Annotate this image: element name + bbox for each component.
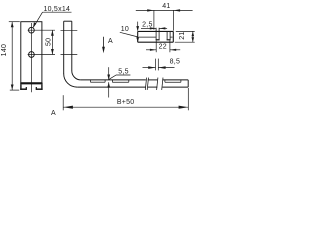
arm bottom line [77,86,146,88]
section lip right pair [166,32,168,40]
arrowhead 50 bottom [51,49,54,54]
label 10,5x14 underline [43,11,72,13]
svg-text:10: 10 [121,26,129,33]
dim B+50 line [63,106,188,108]
dim 41 line [136,9,193,11]
dim 5,5 leader [109,75,131,79]
dim 41 extension right [172,10,174,30]
break mark 2a [157,78,158,90]
foot left wall [20,84,22,90]
foot right wall [41,84,43,90]
foot channel top bar [20,83,42,85]
hole2 centerline tick side view [61,54,78,56]
arrowhead 22 right outside [170,49,176,51]
svg-text:50: 50 [46,38,53,46]
front view upright plate outline [21,22,42,83]
arrowhead B+50 right [179,106,189,109]
section bottom [138,41,174,43]
label 10 leader [120,32,138,37]
arrowhead leader 10,5x14 [33,22,36,28]
vertical centerline through holes [30,23,32,92]
dim 2,5 / 41 vertical line with down arrow [137,22,139,31]
section left wall [137,31,139,42]
side view leg left edge [63,21,65,74]
arrowhead 140 bottom [11,85,14,90]
dim 8,5 tail right [158,67,174,69]
svg-text:10,5x14: 10,5x14 [43,6,70,13]
arrowhead 2,5 down at flange [136,26,139,31]
foot right lip [36,88,43,90]
dim 2,5 horizontal counter line right [159,27,167,29]
arrowhead 2,5 pointing left [159,27,165,29]
dim 140 line [11,22,13,90]
dim 5,5 upper line [108,67,110,80]
arrowhead 21 bottom [192,37,195,42]
dim 21 line [192,31,194,42]
dim 140 extension top [9,21,20,23]
view arrow A line [103,37,105,47]
arrowhead 41 left outside [147,9,154,11]
dim 22 extension right [169,41,171,53]
dim 41 extension left [153,10,155,29]
svg-text:2,5: 2,5 [142,21,152,28]
hole1 centerline tick side view [61,29,78,31]
arm slot 4 [165,81,181,83]
arm slot 2 [112,81,128,83]
dim 22 tail left [146,49,156,51]
dim 8,5 tail left [143,67,156,69]
section right wall [172,31,174,42]
svg-text:A: A [108,38,113,45]
side view leg right edge [71,21,73,71]
arrowhead 22 left outside [150,49,156,51]
arrowhead 10 up at shelf [136,37,139,42]
label 10,5x14 leader [33,12,42,27]
dim 140 extension bottom [10,89,19,91]
foot left lip [20,88,27,90]
arrowhead 8,5 right outside [158,66,165,69]
break mark 2b [162,78,163,90]
svg-text:21: 21 [179,31,186,39]
arrowhead 50 top [51,30,54,35]
svg-text:140: 140 [1,44,8,56]
arrowhead 8,5 left outside [148,66,155,69]
svg-text:22: 22 [159,43,167,50]
section top flange [138,30,174,32]
arrowhead 5,5 down [107,75,110,80]
svg-text:A: A [51,110,56,117]
side view leg top cap [64,20,72,22]
dim 21 extension top [176,30,195,32]
section lip left pair [155,28,157,40]
svg-text:8,5: 8,5 [170,58,180,65]
arrowhead 140 top [11,22,14,27]
svg-text:5,5: 5,5 [118,68,128,75]
dim 8,5 extension left [155,59,157,71]
arrowhead 5,5 up [107,82,110,87]
arrowhead B+50 left [63,106,73,109]
dim 50 line [51,30,53,54]
svg-text:B+50: B+50 [117,99,135,106]
dim 2,5 horizontal arrow line left [141,27,156,29]
slot hole 2 [29,52,35,58]
hole1 centerline tick left view [28,29,55,31]
outer bend curve [64,74,77,87]
arm end cap [187,80,189,87]
break mark 1a [145,78,146,90]
hole2 centerline tick left view [28,54,55,56]
dim 22 extension left [155,41,157,53]
dim 21 extension bottom [175,41,195,43]
arrowhead 41 right outside [173,9,180,11]
inner bend curve [72,71,81,80]
dim 22 tail right [170,49,180,51]
svg-text:41: 41 [162,3,170,10]
arm top line [81,79,146,81]
section inner shelf line left [139,36,156,38]
dim B+50 extension left [62,95,64,110]
section inner shelf line right [170,36,172,38]
arrowhead 21 top [192,32,195,37]
dim 8,5 extension right [157,59,159,71]
arrowhead A down [102,47,105,53]
break mark 1b [147,78,148,90]
dim B+50 extension right [187,88,189,110]
arrowhead 2,5 pointing right [150,27,156,29]
arm slot 1 [91,81,106,83]
dim 5,5 lower line [108,82,110,97]
slot hole 1 [29,27,35,33]
